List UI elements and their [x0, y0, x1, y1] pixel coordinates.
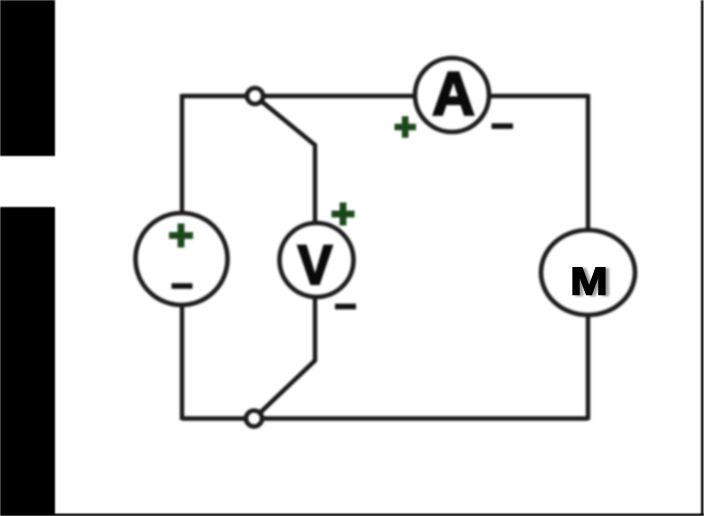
battery B1 minus label: [172, 283, 193, 289]
ammeter plus label: [395, 116, 417, 138]
svg-text:A: A: [432, 60, 475, 128]
ammeter A1: [415, 58, 489, 132]
svg-text:V: V: [298, 234, 333, 296]
node J1 top junction: [247, 88, 263, 104]
wire left rail: [180, 94, 184, 420]
node J2 bottom junction: [246, 411, 262, 427]
wire bottom rail: [182, 416, 588, 420]
voltmeter plus label: [332, 203, 355, 226]
voltmeter minus label: [335, 304, 356, 310]
wire right rail: [586, 94, 590, 420]
battery B1 plus label: [169, 224, 193, 248]
ammeter minus label: [492, 123, 514, 129]
wire top rail: [182, 94, 588, 98]
wire voltmeter branch: [254, 96, 315, 419]
svg-text:M: M: [570, 259, 608, 302]
voltmeter V1: [280, 223, 354, 297]
motor M1: [541, 230, 635, 315]
battery B1: [136, 213, 228, 305]
